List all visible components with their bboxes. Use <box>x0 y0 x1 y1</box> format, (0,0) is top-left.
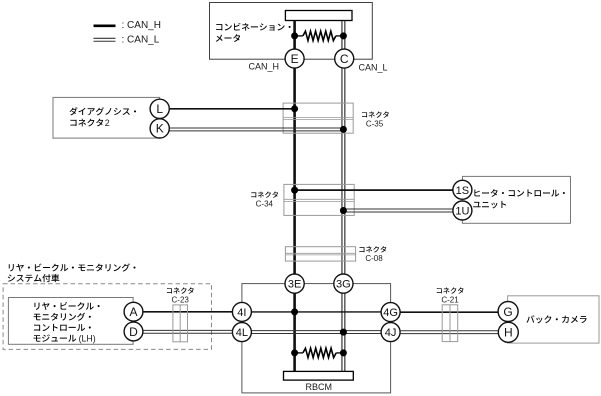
svg-text:3G: 3G <box>336 279 351 291</box>
junction dot L-branch on CAN_H trunk <box>291 105 298 112</box>
junction dot R1 right <box>340 32 347 39</box>
legend CAN_L sample line <box>94 35 160 46</box>
wire CAN_H trunk (node E to node 3E) <box>293 68 296 274</box>
svg-text:H: H <box>504 326 513 340</box>
resistor R2 (terminating, RBCM) <box>295 348 344 357</box>
junction dot 4L-wire on CAN_L trunk <box>340 329 347 336</box>
node 3G (pin 3G) <box>334 274 353 293</box>
svg-text:E: E <box>291 52 299 66</box>
svg-text:RBCM: RBCM <box>306 382 333 392</box>
svg-text:C-08: C-08 <box>365 254 383 263</box>
junction dot 1S-branch on CAN_H trunk <box>291 187 298 194</box>
wire CAN_H branch: node L to trunk <box>169 108 294 110</box>
junction dot 4I-wire on CAN_H trunk <box>291 308 298 315</box>
connector C-34 <box>251 184 354 215</box>
node C (pin C, CAN_L) <box>335 49 354 68</box>
wire CAN_L trunk (node C to node 3G) <box>342 68 345 274</box>
node 1U (pin 1U) <box>453 201 472 220</box>
svg-text:: CAN_L: : CAN_L <box>122 35 160 46</box>
label rear vehicle monitoring system header (リヤ・ビークル・モニタリング・システム付車) <box>8 263 136 282</box>
svg-text:CAN_L: CAN_L <box>359 62 388 72</box>
wire CAN_H from bar to node E <box>293 21 296 50</box>
svg-text:C-35: C-35 <box>366 120 384 129</box>
label CAN_L <box>359 62 388 72</box>
svg-text:(LH): (LH) <box>79 334 96 344</box>
node 4J (pin 4J) <box>381 323 400 342</box>
svg-text:L: L <box>156 102 163 116</box>
node H (pin H) <box>498 322 518 342</box>
wire CAN_L inside RBCM (3G to bar) <box>342 293 345 371</box>
junction dot K-branch on CAN_L trunk <box>340 126 347 133</box>
svg-text:K: K <box>156 122 164 136</box>
svg-text:3E: 3E <box>288 279 301 291</box>
wire CAN_L from bar to node C <box>342 21 345 50</box>
connector C-35 <box>283 103 389 133</box>
junction dot 1U-branch on CAN_L trunk <box>340 207 347 214</box>
svg-text:C-23: C-23 <box>172 296 190 305</box>
node D (pin D) <box>124 322 143 341</box>
svg-text:A: A <box>129 305 137 319</box>
svg-text:G: G <box>503 305 512 319</box>
node E (pin E, CAN_H) <box>285 49 304 68</box>
connector bar inside RBCM <box>284 371 354 380</box>
node 4L (pin 4L) <box>232 323 251 342</box>
box combination meter (コンビネーション・メータ) <box>210 3 373 60</box>
node A (pin A) <box>124 302 143 321</box>
junction dot R2 left <box>291 349 298 356</box>
wire CAN_H inside RBCM (3E to bar) <box>293 293 296 371</box>
node 4G (pin 4G) <box>381 303 400 322</box>
box diagnosis connector 2 (ダイアグノシス・コネクタ2) <box>53 97 160 138</box>
connector C-21 <box>437 287 464 341</box>
connector C-23 <box>167 287 194 341</box>
wire D to 4L (CAN_L) <box>143 330 233 333</box>
svg-text:1U: 1U <box>455 206 469 218</box>
box RBCM <box>242 284 391 393</box>
wire CAN_H branch: trunk to node 1S <box>295 189 453 191</box>
wire 4L to 4J inside RBCM (CAN_L) <box>251 331 381 334</box>
svg-text:C-34: C-34 <box>256 200 274 209</box>
node 4I (pin 4I) <box>232 302 251 321</box>
connector bar inside combination meter <box>285 11 352 21</box>
legend CAN_H sample line <box>94 20 161 31</box>
svg-text:D: D <box>129 325 138 339</box>
wire A to 4I (CAN_H) <box>143 311 233 313</box>
label RBCM <box>306 382 333 392</box>
node L (pin L) <box>150 99 169 118</box>
svg-text:C: C <box>340 52 349 66</box>
svg-text:: CAN_H: : CAN_H <box>122 20 161 31</box>
resistor R1 (terminating, combination meter) <box>295 31 344 40</box>
svg-text:C-21: C-21 <box>441 296 459 305</box>
connector C-08 <box>285 246 386 263</box>
wire 4G to G (CAN_H) <box>400 311 498 313</box>
wire CAN_L branch: trunk to node 1U <box>343 209 453 212</box>
svg-text:2: 2 <box>105 118 110 128</box>
svg-text:4I: 4I <box>237 307 246 319</box>
node 3E (pin 3E) <box>285 274 304 293</box>
node G (pin G) <box>498 302 518 322</box>
junction dot R2 right <box>340 349 347 356</box>
box heater control unit (ヒータ・コントロール・ユニット) <box>462 176 570 223</box>
wire CAN_L branch: node K to trunk <box>169 128 343 131</box>
svg-text:1S: 1S <box>456 185 469 197</box>
svg-text:4J: 4J <box>385 327 397 339</box>
node K (pin K) <box>150 119 169 138</box>
box rear vehicle monitoring control module LH <box>8 298 133 345</box>
svg-text:4G: 4G <box>383 307 398 319</box>
junction dot R1 left <box>291 32 298 39</box>
svg-text:CAN_H: CAN_H <box>248 62 279 72</box>
dashed box rear vehicle monitoring system <box>3 284 211 350</box>
wire 4J to H (CAN_L) <box>400 331 498 334</box>
svg-text:4L: 4L <box>236 327 248 339</box>
node 1S (pin 1S) <box>453 180 472 199</box>
label CAN_H <box>248 62 279 72</box>
wire 4I to 4G inside RBCM (CAN_H) <box>251 311 381 313</box>
box back camera (バック・カメラ) <box>508 296 599 343</box>
